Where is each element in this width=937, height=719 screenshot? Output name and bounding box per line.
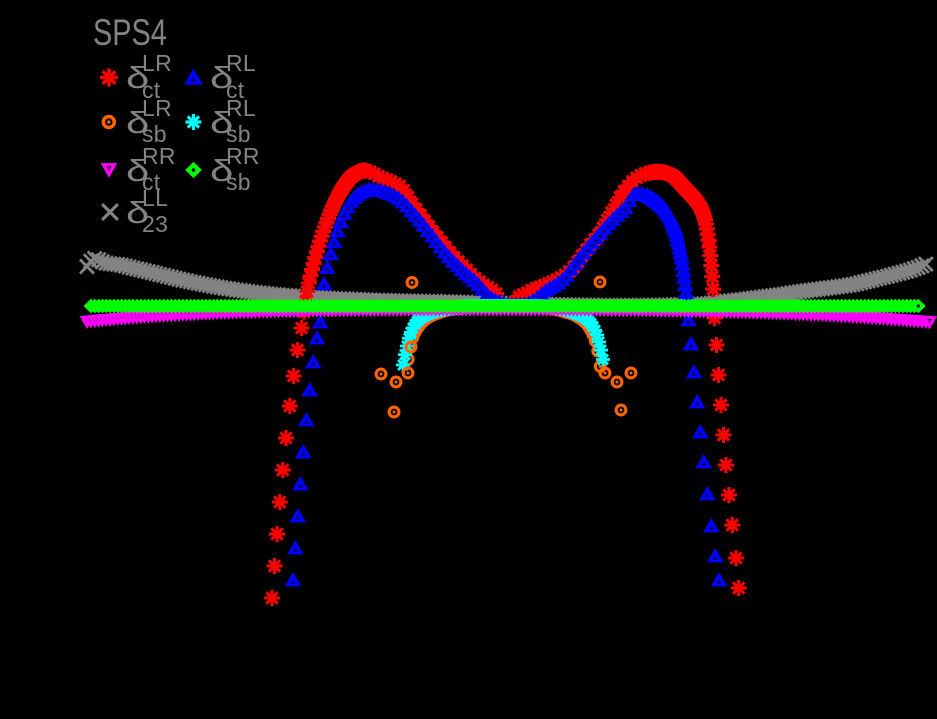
magenta triangle band deltactRR bbox=[80, 304, 937, 330]
legend markers bbox=[100, 69, 203, 220]
cyan asterisk arc deltasbRL bbox=[396, 299, 610, 372]
green diamond band deltasbRR bbox=[84, 299, 926, 314]
orange scattered rings bbox=[376, 277, 636, 417]
red asterisk curve deltactLR bbox=[264, 163, 747, 607]
blue triangle curve deltactRL bbox=[285, 181, 728, 586]
gray cross curve delta23LL bbox=[80, 252, 933, 313]
title SPS4 bbox=[93, 14, 167, 51]
orange ring arc deltasbLR bbox=[403, 302, 605, 372]
legend labels bbox=[126, 62, 149, 93]
